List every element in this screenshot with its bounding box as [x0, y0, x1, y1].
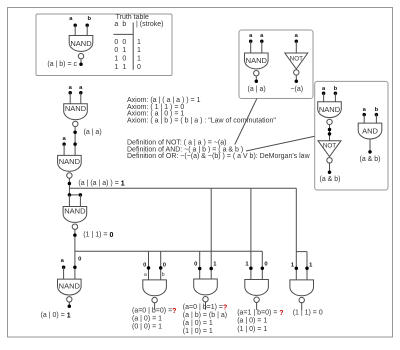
- svg-text:| (stroke): | (stroke): [136, 21, 164, 28]
- wire net-1 horizontal: [69, 187, 296, 189]
- svg-text:(1 | 0) = 1: (1 | 0) = 1: [237, 326, 267, 333]
- junction dot: [261, 266, 265, 270]
- wire: [63, 144, 65, 155]
- junction dot: [249, 266, 253, 270]
- wire: [369, 139, 371, 152]
- wire: [68, 302, 70, 306]
- wire bottom gate 2 left input: [199, 251, 201, 279]
- truth table horizontal rule: [113, 33, 133, 35]
- svg-text:(1 | 1) = 0: (1 | 1) = 0: [83, 232, 113, 239]
- svg-text:0: 0: [122, 56, 126, 63]
- svg-text:(a | (a | a) ) = 1: (a | (a | a) ) = 1: [78, 180, 124, 187]
- svg-text:(a=0 | b=0) =?: (a=0 | b=0) =?: [132, 307, 176, 314]
- wire: [74, 25, 76, 35]
- wire: [306, 252, 308, 280]
- wire net-0 vertical to bottom gate 3: [261, 251, 263, 279]
- wire: [154, 303, 156, 310]
- node (a|a) output dot: [255, 80, 259, 84]
- junction dot: [79, 193, 83, 197]
- node (a & b) output dot: [328, 170, 332, 174]
- svg-text:0: 0: [122, 39, 126, 46]
- junction dot: [68, 193, 72, 197]
- wire: [261, 41, 263, 53]
- wire: [295, 75, 297, 81]
- wire: [68, 195, 70, 207]
- wire: [86, 25, 88, 35]
- svg-text:(1 | 1) = 0: (1 | 1) = 0: [293, 309, 323, 316]
- svg-text:(a | 0) = 1: (a | 0) = 1: [41, 312, 71, 319]
- junction dot: [328, 132, 332, 136]
- svg-text:(a & b): (a & b): [319, 176, 340, 183]
- NAND gate B (chain): [58, 155, 82, 171]
- svg-text:(a | b) = c: (a | b) = c: [47, 61, 77, 68]
- svg-text:0: 0: [194, 262, 197, 268]
- svg-text:0: 0: [114, 47, 118, 54]
- wire bottom gate 1 left input: [148, 251, 150, 280]
- svg-text:(a | 0) = 1: (a | 0) = 1: [183, 320, 213, 327]
- node output dot: [68, 305, 72, 309]
- svg-text:Axiom: ( a | b ) = ( b | a ) :: Axiom: ( a | b ) = ( b | a ) : "Law of c…: [127, 118, 276, 125]
- wire: [63, 267, 65, 279]
- wire: [295, 41, 297, 53]
- callout line from NOT definition panel to text: [235, 99, 257, 145]
- svg-text:NAND: NAND: [70, 39, 92, 48]
- svg-text:b: b: [334, 86, 338, 92]
- wire: [80, 93, 82, 104]
- wire gate A output down to gate B: [74, 127, 76, 155]
- svg-text:0: 0: [114, 39, 118, 46]
- svg-text:1: 1: [137, 47, 141, 54]
- node (a | a) output dot: [73, 131, 77, 135]
- wire: [334, 93, 336, 101]
- junction dot: [328, 128, 332, 132]
- node c output dot: [79, 63, 83, 67]
- svg-text:(1 | 0) = 1: (1 | 0) = 1: [183, 328, 213, 335]
- wire: [363, 115, 365, 124]
- svg-text:a: a: [114, 21, 118, 28]
- svg-text:~(a): ~(a): [290, 86, 303, 93]
- box: AND definition panel: [315, 81, 388, 190]
- svg-text:Definition of OR: ~(~(a) & ~(b: Definition of OR: ~(~(a) & ~(b) ) = ( a …: [127, 153, 311, 160]
- svg-text:(a & b): (a & b): [359, 156, 380, 163]
- node ~(a) output dot: [295, 80, 299, 84]
- wire: [69, 93, 71, 104]
- node output dot: [68, 182, 72, 186]
- wire: [295, 252, 297, 280]
- svg-text:1: 1: [137, 56, 141, 63]
- NAND gate U4 (panel3): [318, 102, 342, 118]
- NOT gate U5 (panel3): [318, 141, 341, 157]
- svg-text:NAND: NAND: [319, 105, 341, 114]
- svg-text:1: 1: [114, 56, 118, 63]
- NAND gate F (bottom row 2): [194, 279, 218, 295]
- svg-text:1: 1: [122, 64, 126, 71]
- wire bottom gate 3 left input from net-1: [250, 188, 252, 279]
- svg-text:(a | 0) = 1: (a | 0) = 1: [132, 315, 162, 322]
- wire gate C output down to gate D: [74, 230, 76, 279]
- wire: [375, 115, 377, 124]
- NAND gate D (chain): [58, 279, 82, 295]
- NAND gate G (bottom row 3): [245, 280, 269, 296]
- NAND gate U1 (truth table panel): [69, 36, 93, 52]
- box: truth table panel: [36, 14, 172, 76]
- svg-text:(a=0 | b=1) =?: (a=0 | b=1) =?: [183, 304, 227, 311]
- node (a & b) output dot: [368, 150, 372, 154]
- NAND gate U2 (panel2): [245, 53, 269, 69]
- svg-text:a: a: [144, 272, 147, 278]
- wire splitter bar gate C: [69, 194, 80, 196]
- wire: [256, 302, 258, 309]
- svg-text:NAND: NAND: [65, 104, 87, 113]
- junction dot: [295, 266, 299, 270]
- NAND gate H (bottom row 4): [290, 280, 314, 296]
- wire: [329, 125, 331, 141]
- svg-text:0: 0: [143, 262, 146, 268]
- wire bottom gate 1 right input: [160, 251, 162, 280]
- svg-text:0: 0: [137, 64, 141, 71]
- svg-text:NAND: NAND: [59, 282, 81, 291]
- junction dot gate D right input: [73, 266, 77, 270]
- NAND gate A (chain): [64, 104, 88, 120]
- svg-text:1: 1: [122, 47, 126, 54]
- svg-text:0: 0: [264, 262, 267, 268]
- svg-text:(a | b) = (b | a): (a | b) = (b | a): [183, 312, 227, 319]
- wire: [329, 163, 331, 172]
- svg-text:(a | a): (a | a): [84, 129, 102, 136]
- svg-text:0: 0: [78, 257, 81, 263]
- wire splitter bar gate 4: [296, 251, 307, 253]
- wire: [205, 302, 207, 310]
- svg-text:AND: AND: [362, 126, 378, 135]
- wire: [323, 93, 325, 101]
- svg-text:NAND: NAND: [64, 207, 86, 216]
- NOT gate U3 (panel2): [285, 53, 308, 69]
- wire: [250, 41, 252, 53]
- junction dot: [159, 266, 163, 270]
- wire net-1 vertical to bottom gate 4: [295, 188, 297, 251]
- svg-text:NOT: NOT: [323, 143, 336, 150]
- junction dot: [198, 267, 202, 271]
- svg-text:0: 0: [163, 262, 166, 268]
- svg-text:(0 | 0) = 1: (0 | 0) = 1: [132, 323, 162, 330]
- svg-text:b: b: [122, 21, 126, 28]
- wire: [80, 59, 82, 64]
- svg-text:b: b: [88, 16, 92, 22]
- wire: [301, 303, 303, 310]
- junction dot gate B right input: [73, 142, 77, 146]
- truth table vertical rule: [132, 23, 134, 70]
- svg-text:NOT: NOT: [290, 56, 303, 63]
- callout line from AND definition text to panel3: [246, 136, 315, 151]
- svg-text:(a | a): (a | a): [248, 86, 266, 93]
- svg-text:(a=1 | b=0) = ?: (a=1 | b=0) = ?: [237, 309, 283, 316]
- svg-text:NAND: NAND: [59, 157, 81, 166]
- svg-text:b: b: [375, 107, 379, 113]
- junction dot: [209, 267, 213, 271]
- wire gate B output down: [68, 179, 70, 195]
- box: NOT definition panel: [239, 30, 313, 99]
- svg-text:NAND: NAND: [246, 56, 268, 65]
- svg-text:(a | 0) = 1: (a | 0) = 1: [237, 318, 267, 325]
- junction dot: [305, 266, 309, 270]
- NAND gate C (chain): [63, 207, 87, 223]
- wire: [255, 76, 257, 81]
- NAND gate E (bottom row 1): [143, 280, 167, 296]
- node output dot: [73, 233, 77, 237]
- wire net-0 horizontal: [75, 250, 262, 252]
- svg-text:b: b: [162, 272, 165, 278]
- wire bottom gate 2 right input from net-1: [210, 188, 212, 279]
- wire: [79, 195, 81, 207]
- svg-text:1: 1: [137, 39, 141, 46]
- AND gate U6 (panel3): [358, 123, 382, 139]
- svg-text:1: 1: [114, 64, 118, 71]
- junction dot: [147, 266, 151, 270]
